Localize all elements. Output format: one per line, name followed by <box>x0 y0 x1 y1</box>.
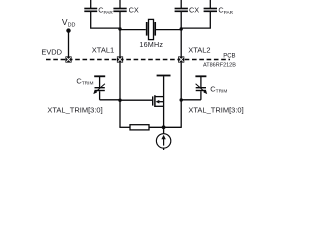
pad XTAL2 (crossed square) <box>178 56 184 62</box>
wire: crystal right terminal to XTAL2 net <box>156 29 181 31</box>
svg-text:PCB: PCB <box>223 54 235 60</box>
wire: left CPAR bottom lead down and right to XTAL1 net <box>91 12 120 28</box>
wire: XTAL1 line corner to resistor <box>119 126 130 128</box>
svg-text:XTAL2: XTAL2 <box>188 46 210 55</box>
wire: right CX lead down to XTAL2 pad <box>180 12 182 57</box>
wire: resistor to source node and right to XTAL2 line <box>149 126 181 128</box>
wire: XTAL1 net to crystal left terminal <box>120 29 146 31</box>
wire: XTAL2 net up-right to right CPAR <box>181 12 210 28</box>
wire: left CTRIM bottom to XTAL1 line <box>100 99 120 101</box>
capacitor CTRIM (left, trimmer) <box>93 77 105 100</box>
junction: gate net at XTAL1 line <box>118 99 121 102</box>
wire: top lead of left CX <box>119 0 121 8</box>
transistor (XOSC amplifier NMOS) <box>153 95 164 107</box>
wire: VDD down to EVDD pad <box>68 32 70 57</box>
svg-text:XTAL_TRIM[3:0]: XTAL_TRIM[3:0] <box>188 105 243 114</box>
svg-text:XTAL1: XTAL1 <box>92 46 114 55</box>
ground bar above left CTRIM <box>94 75 105 77</box>
ground bar above right CTRIM <box>195 75 206 77</box>
supply rail bar above transistor <box>157 75 171 77</box>
svg-text:CTRIM: CTRIM <box>76 76 93 86</box>
wire: dashed PCB boundary line <box>46 59 230 61</box>
pad EVDD (crossed square) <box>65 56 71 62</box>
junction: source/resistor/current-source node <box>162 125 166 129</box>
svg-text:XTAL_TRIM[3:0]: XTAL_TRIM[3:0] <box>47 105 102 114</box>
wire: top lead of right CPAR <box>209 0 211 8</box>
svg-text:CX: CX <box>129 5 139 14</box>
svg-text:CPAR: CPAR <box>98 6 113 15</box>
current source (XOSC bias) <box>156 128 170 150</box>
crystal 16MHz <box>147 19 156 39</box>
resistor (feedback bias R) <box>130 125 149 130</box>
capacitor CX (left) <box>113 9 126 12</box>
svg-text:EVDD: EVDD <box>41 48 62 57</box>
svg-text:AT86RF212B: AT86RF212B <box>203 63 236 69</box>
svg-text:VDD: VDD <box>62 17 76 29</box>
capacitor CPAR (left) <box>84 9 97 12</box>
wire: transistor vertical (drain up to rail, source down) <box>163 76 165 127</box>
capacitor CPAR (right) <box>204 9 217 12</box>
capacitor CTRIM (right, trimmer) <box>196 77 208 100</box>
junction: XTAL1 net at crystal wire <box>118 27 121 30</box>
svg-text:CPAR: CPAR <box>218 6 233 15</box>
svg-text:CTRIM: CTRIM <box>210 84 227 94</box>
svg-text:CX: CX <box>189 5 199 14</box>
wire: left CX lead down to XTAL1 pad <box>119 12 121 57</box>
wire: XTAL1 pad down to gate net and resistor <box>119 63 121 128</box>
wire: XTAL2 line from pad down to bottom wire <box>180 63 182 128</box>
svg-text:16MHz: 16MHz <box>139 40 163 49</box>
wire: top lead of right CX <box>180 0 182 8</box>
capacitor CX (right) <box>175 9 188 12</box>
junction: XTAL2 net at crystal wire <box>180 27 183 30</box>
wire: XTAL2 line to right CTRIM <box>181 99 201 101</box>
node VDD terminal dot <box>66 28 70 32</box>
junction: right trimmer net at XTAL2 line <box>180 98 183 101</box>
wire: top lead of left CPAR <box>90 0 92 8</box>
wire: gate wire to transistor <box>120 99 152 101</box>
pad XTAL1 (crossed square) <box>117 56 123 62</box>
